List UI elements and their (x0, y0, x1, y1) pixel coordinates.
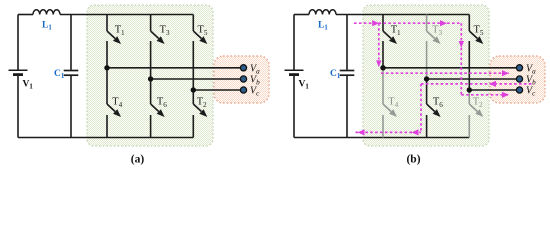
wire: phase A output line (b) (383, 67, 520, 69)
battery V1 (a) (9, 70, 34, 91)
output terminal Vb (b) (516, 75, 536, 87)
node c junction dot (b) (467, 87, 472, 92)
battery V1 (b) (285, 70, 310, 91)
wire: left branch with DC source (a) (17, 15, 19, 138)
wire: leg3 lower, node c to T2 (b) (468, 90, 470, 104)
wire: bottom rail (b) (294, 137, 469, 139)
switch T1 (a) (107, 15, 125, 45)
wire: leg2 upper stub to node b (a) (150, 41, 152, 79)
wire: phase A output line (a) (107, 67, 244, 69)
capacitor C1 (b) (330, 15, 354, 138)
current path: down through T1 into node a (b) (376, 23, 381, 67)
switch T3 (b) (427, 15, 443, 45)
switch T5 (b) (469, 15, 484, 45)
switch T1 (b) (383, 15, 401, 45)
current path: down through T6 leg (b) (420, 84, 422, 132)
wire: top rail (b) (294, 14, 469, 16)
switch T6 (a) (151, 97, 168, 138)
wire: phase C output line (a) (193, 89, 243, 91)
current path: phase A toward Va (b) (381, 70, 509, 76)
switch T4 (b) (383, 97, 399, 138)
svg-text:(a): (a) (131, 154, 145, 166)
inductor L1 (a) (33, 10, 60, 32)
wire: phase B output line (a) (151, 78, 244, 80)
current path: top rail arrow (b) (354, 20, 461, 26)
output terminal Vc (a) (240, 86, 260, 98)
capacitor C1 (a) (54, 15, 78, 138)
green dashed box: inverter bridge (a) (87, 5, 213, 146)
wire: leg3 lower, node c to T2 (a) (192, 90, 194, 104)
switch T3 (a) (151, 15, 170, 45)
wire: left branch with DC source (b) (293, 15, 295, 138)
wire: leg2 lower, node b to T6 (b) (426, 79, 428, 104)
wire: leg2 lower, node b to T6 (a) (150, 79, 152, 104)
pink dashed box: output terminals (b) (490, 56, 545, 103)
node c junction dot (a) (191, 87, 196, 92)
output terminal Va (a) (240, 63, 260, 75)
wire: bottom rail (a) (18, 137, 193, 139)
wire: leg3 upper stub to node c (b) (468, 41, 470, 90)
wire: leg1 upper stub to node a (b) (382, 41, 384, 68)
current path: phase C toward Vc (b) (461, 92, 509, 98)
node a junction dot (a) (104, 65, 109, 70)
current path: down through T5 leg (b) (459, 23, 464, 95)
current path: phase B return from Vb (b) (421, 81, 534, 87)
node b junction dot (b) (424, 76, 429, 81)
switch T5 (a) (193, 15, 208, 45)
wire: leg1 upper stub to node a (a) (106, 41, 108, 68)
switch T2 (a) (193, 97, 207, 138)
output terminal Vb (a) (240, 75, 260, 87)
wire: leg1 lower, node a to T4 (a) (106, 68, 108, 104)
switch T4 (a) (107, 97, 123, 138)
wire: leg3 upper stub to node c (a) (192, 41, 194, 90)
node a junction dot (b) (380, 65, 385, 70)
switch T2 (b) (469, 97, 483, 138)
pink dashed box: output terminals (a) (214, 56, 269, 103)
wire: leg1 lower, node a to T4 (b) (382, 68, 384, 104)
output terminal Va (b) (516, 63, 536, 75)
node b junction dot (a) (148, 76, 153, 81)
wire: leg2 upper stub to node b (b) (426, 41, 428, 79)
svg-text:(b): (b) (406, 154, 420, 166)
wire: phase C output line (b) (469, 89, 519, 91)
wire: top rail (a) (18, 14, 193, 16)
wire: phase B output line (b) (427, 78, 520, 80)
current path: bottom rail return (b) (356, 129, 422, 135)
switch T6 (b) (427, 97, 444, 138)
output terminal Vc (b) (516, 86, 536, 98)
inductor L1 (b) (309, 10, 336, 32)
green dashed box: inverter bridge (b) (363, 5, 489, 146)
